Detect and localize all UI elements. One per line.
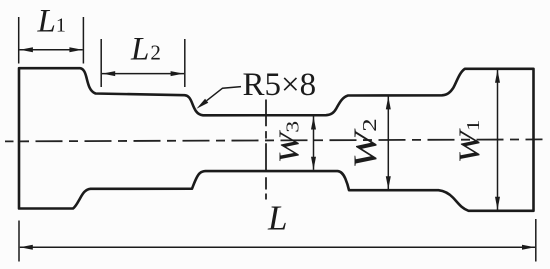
svg-text:L: L (267, 198, 287, 237)
centerline vertical (265, 100, 267, 200)
dimension W2 (386, 96, 391, 189)
dimension L2 (101, 39, 185, 87)
dimension W3 (311, 117, 316, 170)
dimension W1 (495, 70, 500, 210)
centerline horizontal (5, 139, 543, 141)
specimen outline (19, 68, 534, 211)
svg-text:R5×8: R5×8 (243, 67, 317, 103)
dimension L1 (19, 17, 84, 64)
dimension L (19, 219, 536, 262)
leader R5x8 (197, 87, 242, 109)
